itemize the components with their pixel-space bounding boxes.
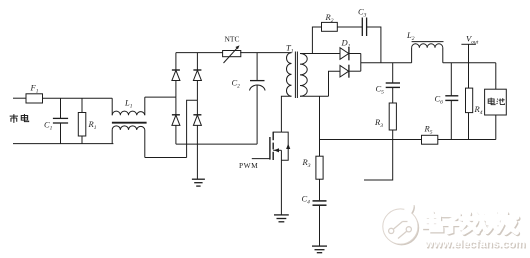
wire: D1 cathode join bar	[360, 54, 362, 72]
svg-text:L1: L1	[124, 98, 133, 110]
svg-text:R1: R1	[88, 119, 97, 131]
wire: damper branch drop	[392, 63, 394, 83]
wire: secondary bottom lead	[300, 95, 329, 97]
resistor R4	[466, 63, 483, 140]
wire: bridge ground drop	[196, 144, 198, 179]
diode bridge: top-left diode	[172, 53, 180, 98]
wire: AC riser to bridge node B	[187, 100, 198, 157]
wire: bridge top rail to NTC	[176, 52, 223, 54]
svg-text:PWM: PWM	[239, 161, 258, 170]
node: mains label 市电	[10, 114, 29, 123]
wire: top wire F1 to L1	[43, 97, 113, 99]
svg-text:D1: D1	[341, 38, 351, 50]
wire: MOSFET source to ground	[280, 150, 282, 215]
WATERMARK	[383, 204, 527, 251]
diode bridge: top-right diode	[193, 53, 201, 101]
diode bridge: bottom-left diode	[172, 97, 180, 144]
svg-text:R3: R3	[302, 157, 311, 169]
wire: mains bottom wire	[13, 143, 113, 145]
wire: NTC to transformer primary top	[240, 52, 291, 54]
transformer T1 core	[295, 52, 297, 99]
capacitor C2 (electrolytic)	[232, 53, 266, 145]
wire: D1b anode riser	[329, 71, 341, 96]
wire: bridge bottom rail (DC minus)	[176, 143, 257, 145]
svg-text:R4: R4	[474, 104, 483, 116]
transformer T1 secondary winding	[300, 54, 307, 97]
MOSFET source connection with arrow	[273, 148, 281, 152]
svg-text:R5: R5	[424, 124, 433, 136]
inductor L1 core	[112, 122, 147, 124]
MOSFET body loop with arrow	[281, 132, 290, 160]
battery box 电池	[485, 63, 507, 140]
ground (MOSFET)	[274, 215, 289, 222]
wire: L2 to battery rail	[443, 62, 496, 64]
svg-text:R3: R3	[374, 117, 383, 129]
capacitor C6	[435, 63, 459, 140]
svg-text:NTC: NTC	[225, 35, 240, 44]
svg-text:www.elecfans.com: www.elecfans.com	[424, 238, 526, 250]
resistor R5 (in negative rail)	[422, 124, 438, 145]
capacitor C3 (snubber)	[358, 7, 367, 37]
wire: secondary top lead to D1a	[300, 53, 340, 55]
NTC thermistor	[223, 35, 241, 63]
resistor R1	[78, 98, 96, 143]
ground (C4 branch)	[312, 246, 327, 253]
svg-text:L2: L2	[406, 30, 415, 42]
wire: C3 to output rail drop	[367, 27, 381, 63]
resistor R3 / capacitor C4 branch from secondary return	[319, 96, 321, 156]
svg-text:C4: C4	[302, 194, 311, 206]
svg-text:C1: C1	[44, 120, 53, 132]
snubber riser wire	[312, 27, 321, 54]
wire: secondary-side negative rail	[320, 139, 422, 141]
fuse F1	[26, 83, 43, 104]
terminal Vout	[461, 34, 478, 63]
wire: L1 bottom to AC riser	[145, 157, 187, 159]
svg-text:F1: F1	[30, 83, 39, 95]
transformer T1 primary winding	[281, 43, 293, 133]
inductor L2	[406, 30, 444, 63]
diode D1 top	[340, 38, 361, 61]
ground (bridge)	[192, 179, 205, 186]
capacitor C1	[44, 98, 68, 143]
inductor L1 bottom winding	[112, 126, 145, 158]
inductor L1 (common-mode choke) top winding	[112, 97, 145, 115]
wire: L1 top to bridge AC node A	[145, 96, 176, 98]
svg-text:C2: C2	[232, 78, 241, 90]
resistor R3 (damper branch)	[374, 103, 396, 130]
svg-text:C6: C6	[435, 94, 444, 106]
wire: rail R5 to battery	[438, 139, 496, 141]
wire: R2 to C3	[337, 26, 362, 28]
wire: damper to rail and stub	[364, 130, 393, 180]
diode bridge: bottom-right diode	[193, 100, 201, 144]
resistor R2 (snubber)	[322, 12, 338, 31]
MOSFET PWM : gate lead	[252, 158, 270, 160]
resistor R3	[302, 156, 324, 179]
svg-text:Vout: Vout	[466, 34, 479, 46]
wire: output rail to L2	[361, 62, 412, 64]
MOSFET gate bar	[269, 137, 271, 160]
MOSFET drain connection	[273, 131, 281, 133]
svg-text:C5: C5	[376, 84, 385, 96]
capacitor C5	[376, 83, 401, 103]
MOSFET channel segments	[272, 132, 274, 160]
wire: mains top lead	[13, 97, 26, 99]
diode D1 bottom	[340, 65, 361, 78]
svg-text:C3: C3	[358, 7, 367, 19]
capacitor C4	[302, 179, 327, 246]
